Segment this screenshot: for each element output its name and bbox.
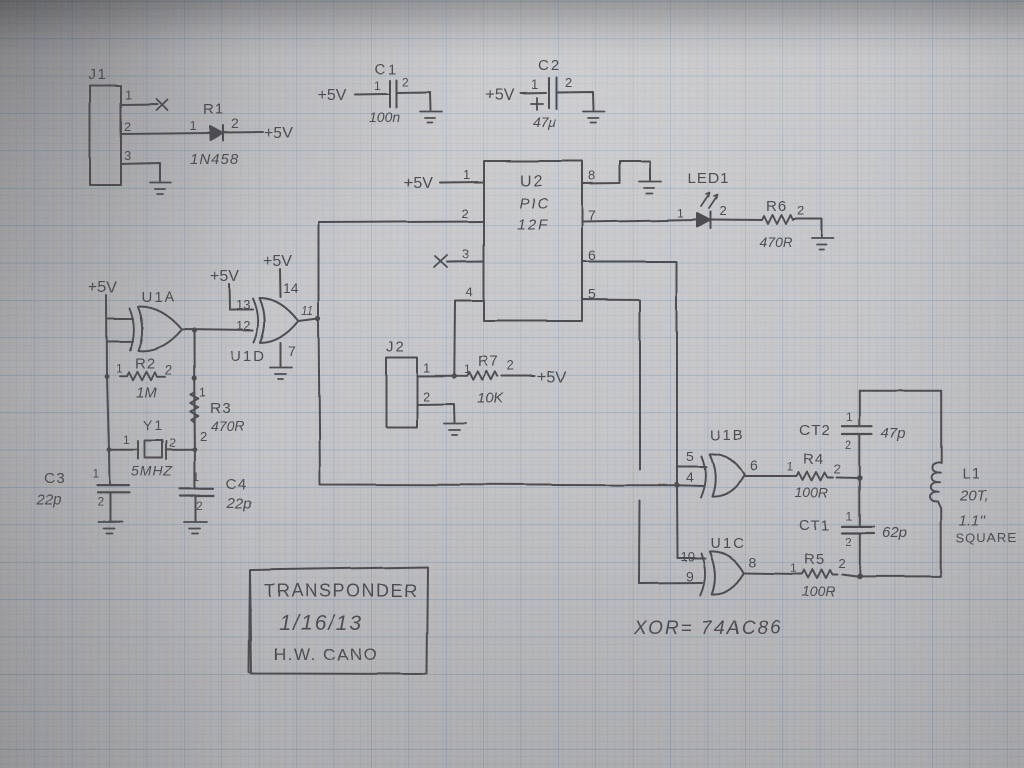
pin number 6 of U1B bbox=[750, 458, 758, 474]
label SQUARE bbox=[956, 530, 1017, 545]
pin number 1 of R4 bbox=[787, 460, 794, 474]
pin number 5 of U1B bbox=[686, 448, 694, 464]
ground at C1 bbox=[420, 112, 442, 123]
wire tank bottom rail bbox=[860, 576, 941, 578]
XOR gate U1D bbox=[253, 298, 298, 343]
label 1N458 bbox=[190, 151, 239, 168]
LED1 emission arrows bbox=[701, 193, 718, 209]
note XOR = 74AC86 bbox=[633, 618, 782, 639]
IC U2 PIC 12F body bbox=[484, 161, 582, 321]
label PIC bbox=[519, 195, 550, 212]
net +5V at R7 bbox=[537, 369, 566, 386]
junction dot R2 pin1 bbox=[105, 374, 110, 379]
pin number 2 of U2 bbox=[462, 206, 469, 221]
label 1M bbox=[136, 384, 157, 401]
wire U1C pin 9 bbox=[639, 582, 702, 585]
pin number 14 of U1D bbox=[283, 280, 299, 296]
net +5V at C1 bbox=[318, 87, 347, 104]
junction dot J2/R7/U2 pin4 bbox=[452, 373, 457, 378]
label 470R bbox=[759, 234, 792, 250]
wire U2 pin 2 to bus corner bbox=[319, 222, 485, 223]
label L1 bbox=[962, 465, 981, 482]
pin number 2 of J2 bbox=[423, 389, 430, 404]
wire J1 pin 2 to diode bbox=[121, 133, 209, 134]
pin number 8 of U1C bbox=[749, 554, 757, 570]
label 20T, bbox=[959, 487, 989, 504]
label C1 bbox=[374, 61, 399, 78]
label 100R of R5 bbox=[802, 583, 835, 599]
label 100n bbox=[369, 109, 400, 125]
wire bus vertical and horizontal to U1B bbox=[319, 223, 678, 486]
wire junction down through R2 node to crystal node bbox=[193, 331, 196, 489]
wire C1 to ground bbox=[397, 92, 431, 110]
wire left rail +5V down to C3 bbox=[107, 295, 110, 485]
label 47p bbox=[881, 425, 906, 442]
label 22p of C3 bbox=[35, 491, 61, 508]
ground at U2 pin 8 bbox=[639, 182, 661, 194]
wire U2 pin 3 bbox=[447, 260, 484, 263]
pin number 11 of U1D bbox=[301, 304, 313, 318]
ground at J2 pin 2 bbox=[444, 424, 466, 436]
ground at C2 bbox=[583, 112, 604, 123]
pin number 1 of C4 bbox=[193, 470, 200, 484]
wire U2 pin 5 down (hop over bus) bbox=[582, 300, 640, 584]
wire J1 pin 1 bbox=[121, 103, 157, 106]
pin number 2 of R5 bbox=[838, 556, 845, 571]
pin number 5 of U2 bbox=[588, 286, 596, 302]
wire U1D pin 7 to ground bbox=[280, 343, 282, 366]
wire C3 to ground bbox=[109, 493, 111, 521]
resistor R3 vertical bbox=[190, 392, 198, 423]
wire U2 pin 8 to ground bbox=[582, 162, 650, 184]
ground at U1D pin 7 bbox=[270, 368, 292, 380]
no-connect X on J1 pin 1 bbox=[156, 99, 167, 110]
label 22p of C4 bbox=[226, 495, 252, 512]
pin number 2 of R4 bbox=[834, 461, 841, 476]
wire diode to +5V bbox=[224, 131, 264, 134]
resistor R4 bbox=[790, 472, 834, 481]
pin number 1 of CT1 bbox=[846, 509, 853, 523]
capacitor CT1 plates bbox=[842, 526, 874, 533]
label 62p bbox=[882, 524, 907, 541]
label CT2 bbox=[799, 422, 830, 439]
LED LED1 bbox=[697, 212, 711, 229]
wire U1B output to R4 bbox=[745, 476, 791, 478]
label U1D bbox=[230, 348, 266, 365]
wire J2 pin 1 to junction bbox=[417, 375, 454, 377]
pin number 2 of C4 bbox=[196, 499, 203, 513]
wire CT column top bbox=[859, 390, 861, 425]
pin number 13 of U1D bbox=[236, 297, 250, 312]
pin number 2 of C3 bbox=[97, 495, 104, 509]
label U1B bbox=[710, 427, 745, 444]
junction dot at U1A output bbox=[191, 328, 196, 333]
pin number 2 of C2 bbox=[565, 75, 572, 90]
title box bbox=[249, 567, 428, 674]
diode R1 1N458 bbox=[210, 126, 223, 141]
wire tank top rail bbox=[860, 389, 941, 391]
label LED1 bbox=[688, 170, 730, 187]
net +5V at U1A bbox=[88, 279, 117, 296]
junction dot crystal left bbox=[107, 447, 112, 452]
capacitor CT2 plates bbox=[842, 426, 872, 434]
label U1A bbox=[141, 289, 176, 306]
pin number 1 of C3 bbox=[92, 467, 99, 481]
wire U2 pin 6 down to U1B bbox=[582, 262, 677, 486]
wire U1C output to R5 bbox=[744, 573, 795, 574]
pin number 2 of Y1 bbox=[169, 436, 176, 450]
resistor R2 bbox=[120, 371, 166, 380]
pin number 6 of U2 bbox=[588, 247, 596, 263]
wire R5 to junction bbox=[842, 575, 860, 577]
wire +5V to U1D pin 14 bbox=[279, 269, 282, 297]
wire CT2 to R4 junction bbox=[859, 434, 861, 525]
wire U1B pin 4 bbox=[677, 484, 703, 487]
net +5V at U1D pin 14 bbox=[263, 253, 292, 270]
net +5V at R1 bbox=[264, 125, 293, 142]
capacitor C3 plates bbox=[97, 486, 130, 493]
wire +5V to C1 bbox=[355, 93, 388, 96]
pin number 2 of LED1 bbox=[719, 203, 726, 218]
label 100R of R4 bbox=[795, 484, 828, 500]
label C4 bbox=[226, 476, 247, 493]
label U2 bbox=[520, 173, 544, 190]
XOR gate U1C bbox=[700, 551, 744, 595]
net +5V at U1D pin 13 bbox=[210, 268, 239, 285]
pin number 1 of J1 bbox=[125, 87, 132, 102]
label Y1 bbox=[143, 417, 164, 433]
ground at C3 bbox=[98, 522, 122, 534]
label CT1 bbox=[799, 517, 830, 534]
pin number 10 of U1C bbox=[680, 549, 694, 564]
pin number 2 of R6 bbox=[797, 203, 804, 218]
wire R6 to ground bbox=[793, 219, 822, 237]
pin number 1 of LED1 bbox=[677, 206, 684, 220]
label J2 bbox=[386, 338, 406, 355]
pin number 12 of U1D bbox=[236, 318, 250, 333]
junction dot U1B pin 4 bus bbox=[674, 482, 680, 488]
label C3 bbox=[44, 470, 65, 487]
polarity plus of C2 bbox=[531, 98, 543, 110]
junction dot R2 pin2 / R3 top bbox=[192, 375, 197, 380]
label C2 bbox=[538, 57, 561, 74]
pin number 1 of C2 bbox=[531, 77, 538, 92]
pin number 2 of J1 bbox=[124, 119, 131, 134]
pin number 4 of U2 bbox=[466, 284, 473, 299]
junction dot R5 / CT line / bottom rail bbox=[857, 574, 863, 580]
resistor R6 bbox=[762, 215, 793, 224]
title TRANSPONDER bbox=[264, 581, 419, 601]
wire left rail to crystal bbox=[109, 449, 195, 451]
pin number 8 of U2 bbox=[588, 168, 595, 183]
pin number 1 of C1 bbox=[374, 79, 381, 93]
capacitor C4 plates bbox=[180, 489, 214, 496]
pin number 1 of J2 bbox=[423, 360, 430, 375]
label R6 bbox=[766, 198, 787, 215]
pin number 1 of R7 bbox=[464, 362, 471, 376]
wire LED1 to R6 bbox=[711, 219, 762, 222]
XOR gate U1B bbox=[701, 454, 745, 498]
pin number 1 of R1 bbox=[189, 118, 196, 133]
ground at C4 bbox=[184, 522, 207, 534]
pin number 3 of J1 bbox=[124, 148, 131, 163]
title H.W. CANO bbox=[274, 645, 378, 664]
XOR gate U1A bbox=[130, 306, 182, 350]
no-connect X on U2 pin 3 bbox=[434, 255, 447, 267]
wire C4 to ground bbox=[195, 496, 197, 521]
label 10K bbox=[477, 390, 505, 407]
ground at J1 pin 3 bbox=[150, 183, 171, 195]
label R3 bbox=[210, 400, 231, 417]
label J1 bbox=[88, 66, 108, 83]
junction dot crystal right bbox=[193, 447, 198, 452]
wire J1 pin 3 bbox=[121, 163, 160, 181]
wire L1 column top bbox=[940, 390, 942, 463]
pin number 1 of U2 bbox=[463, 167, 470, 182]
ground at R6 bbox=[812, 239, 834, 251]
pin number 2 of C1 bbox=[402, 75, 409, 89]
connector J1 bbox=[90, 86, 121, 186]
label R2 bbox=[135, 355, 156, 372]
capacitor C1 plates bbox=[390, 80, 397, 108]
junction dot R4 / CT line bbox=[857, 475, 863, 481]
wire U1A output to U1D pin 12 bbox=[182, 330, 253, 331]
pin number 3 of U2 bbox=[462, 246, 469, 261]
pin number 4 of U1B bbox=[686, 469, 694, 485]
wire U1D output pin 11 to bus bbox=[298, 319, 318, 322]
pin number 2 of R2 bbox=[165, 362, 172, 377]
pin number 2 of CT2 bbox=[845, 438, 852, 452]
inductor L1 coil bbox=[930, 462, 942, 501]
wire U2 pin 4 down to R7 junction bbox=[454, 301, 484, 376]
wire +5V to C2 bbox=[520, 92, 546, 95]
wire J2 pin 2 to ground bbox=[417, 404, 455, 422]
net +5V at U2 pin 1 bbox=[404, 175, 433, 192]
pin number 2 of R7 bbox=[507, 358, 514, 373]
label R1 bbox=[203, 101, 224, 118]
pin number 2 of R1 bbox=[231, 115, 239, 131]
pin number 7 of U2 bbox=[588, 207, 596, 223]
wire C2 to ground bbox=[557, 92, 594, 110]
pin number 1 of Y1 bbox=[123, 433, 130, 447]
label R7 bbox=[478, 353, 499, 370]
junction dot U1D output on bus bbox=[315, 316, 320, 321]
wire R7 to +5V bbox=[502, 375, 535, 377]
connector J2 bbox=[386, 357, 417, 427]
pin number 7 of U1D bbox=[288, 343, 296, 359]
wire L1 column bottom bbox=[938, 501, 941, 577]
label 5MHZ bbox=[131, 463, 173, 479]
title date 1/16/13 bbox=[279, 612, 363, 635]
label 47u bbox=[533, 114, 557, 130]
label R4 bbox=[803, 451, 824, 468]
pin number 1 of CT2 bbox=[846, 410, 853, 424]
label U1C bbox=[710, 535, 746, 552]
pin number 1 of R3 bbox=[199, 385, 206, 399]
label R5 bbox=[804, 551, 825, 568]
wire +5V to U1D pin 13 bbox=[229, 284, 253, 310]
label 1.1'' bbox=[959, 512, 987, 529]
wire U1A input pin lower bbox=[108, 340, 134, 342]
capacitor C2 plates bbox=[549, 78, 557, 109]
wire U2 pin 7 to LED1 bbox=[582, 220, 696, 222]
wire CT1 to bottom junction bbox=[859, 533, 861, 577]
label 12F bbox=[517, 216, 549, 233]
pin number 1 of R2 bbox=[116, 361, 123, 375]
resistor R7 bbox=[454, 371, 498, 380]
pin number 9 of U1C bbox=[686, 568, 694, 584]
wire U1A input pin upper bbox=[107, 318, 133, 320]
pin number 1 of R5 bbox=[790, 561, 797, 575]
wire U1B pin 5 bbox=[677, 466, 706, 468]
label 470R bbox=[211, 418, 244, 434]
wire +5V to U2 pin 1 bbox=[440, 181, 484, 184]
resistor R5 bbox=[795, 570, 838, 579]
pin number 2 of CT1 bbox=[845, 535, 852, 549]
net +5V at C2 bbox=[485, 87, 514, 104]
wire R4 to junction bbox=[837, 476, 860, 479]
crystal Y1 bbox=[138, 441, 166, 460]
wire bus continues down to U1C pin 10 bbox=[677, 485, 706, 558]
pin number 2 of R3 bbox=[200, 429, 207, 444]
